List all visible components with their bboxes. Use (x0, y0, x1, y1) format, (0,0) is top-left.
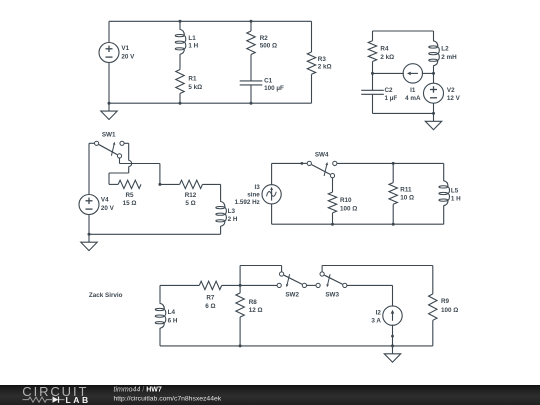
label C2 1 µF (385, 87, 398, 102)
svg-text:C1: C1 (264, 77, 273, 84)
label L3 2 H (228, 208, 238, 223)
label R3 2 kΩ (318, 56, 332, 71)
svg-text:2 H: 2 H (228, 216, 238, 223)
voltage source V1 (99, 43, 119, 63)
wire bottom rail of circuit 2 (373, 112, 434, 114)
svg-text:2 mH: 2 mH (441, 54, 457, 61)
label R11 10 Ω (400, 187, 414, 202)
resistor R5 (118, 180, 141, 188)
resistor R10 (328, 178, 336, 225)
wire SW2 right throw to SW3 left throw (307, 284, 317, 286)
svg-text:L2: L2 (441, 45, 449, 52)
svg-text:100 Ω: 100 Ω (441, 307, 458, 314)
svg-text:C2: C2 (385, 87, 394, 94)
svg-text:R9: R9 (441, 298, 450, 305)
svg-text:500 Ω: 500 Ω (260, 43, 277, 50)
svg-text:10 Ω: 10 Ω (400, 195, 414, 202)
svg-text:V1: V1 (121, 45, 129, 52)
resistor R3 (307, 52, 315, 74)
label I1 4 mA (405, 87, 421, 102)
svg-text:SW3: SW3 (325, 291, 339, 298)
wire C2 top lead (372, 73, 374, 90)
svg-text:4 mA: 4 mA (405, 95, 421, 102)
svg-text:L3: L3 (228, 208, 236, 215)
wire left rail (V1 branch) (108, 21, 110, 103)
ground circuit 5 (384, 346, 400, 362)
svg-text:R11: R11 (400, 187, 412, 194)
wire middle right segment (422, 72, 434, 74)
label SW2 (285, 291, 299, 298)
svg-text:R12: R12 (185, 192, 197, 199)
node junction at V2 ground (432, 112, 435, 115)
voltage source V2 (424, 73, 444, 113)
node junction at V1 ground (108, 102, 111, 105)
current source I3 (sine) (262, 163, 281, 224)
svg-text:SW4: SW4 (315, 152, 329, 159)
current source I2 (383, 306, 402, 325)
wire L4 top lead (159, 285, 161, 302)
svg-text:100 µF: 100 µF (264, 85, 284, 92)
node junction top of L1 (179, 20, 182, 23)
svg-text:I1: I1 (410, 87, 416, 94)
svg-text:R2: R2 (260, 35, 269, 42)
current source I1 (403, 64, 422, 83)
wire SW4 right terminal to L5 (337, 162, 444, 164)
wire R2 to C1 (250, 55, 252, 81)
svg-text:100 Ω: 100 Ω (340, 205, 357, 212)
resistor R1 (176, 70, 184, 104)
label R10 100 Ω (340, 197, 357, 212)
label C1 100 µF (264, 77, 284, 92)
wire node A up and over to SW2 pole (240, 266, 282, 286)
svg-text:I3: I3 (255, 184, 261, 191)
svg-text:20 V: 20 V (121, 53, 135, 60)
label V1 20 V (121, 45, 135, 60)
node junction bottom of R1 (179, 102, 182, 105)
wire middle left segment (373, 72, 404, 74)
label L4 6 H (168, 309, 178, 325)
wire I2 to bottom rail (391, 325, 394, 346)
svg-text:I2: I2 (376, 309, 382, 316)
svg-text:V4: V4 (101, 197, 109, 204)
svg-text:6 Ω: 6 Ω (205, 303, 215, 310)
label R7 6 Ω (205, 294, 215, 310)
node junction A (R7/R8/SW2 branches) (239, 284, 242, 287)
wire C1 to bottom rail (250, 85, 252, 103)
svg-text:R8: R8 (249, 299, 258, 306)
node junction R4/C2/middle wire (371, 72, 374, 75)
label SW4 (315, 152, 329, 159)
svg-text:R4: R4 (380, 45, 389, 52)
svg-text:http://circuitlab.com/c7n8hsxe: http://circuitlab.com/c7n8hsxez44ek (114, 396, 222, 403)
resistor R4 (368, 31, 376, 73)
capacitor C1 (240, 81, 263, 85)
wire top rail of circuit 1 (109, 20, 312, 22)
label V4 20 V (101, 197, 115, 212)
node junction L2/V2/middle wire (432, 72, 435, 75)
label L2 2 mH (441, 45, 457, 61)
resistor R8 (236, 285, 244, 346)
wire bottom rail of circuit 1 (109, 102, 312, 104)
voltage source V4 (79, 195, 99, 215)
wire right rail (R3 branch) (311, 21, 313, 103)
ground circuit 3 (81, 234, 97, 250)
resistor R9 (429, 266, 437, 346)
svg-text:SW1: SW1 (102, 132, 116, 139)
svg-text:2 kΩ: 2 kΩ (380, 54, 394, 61)
svg-text:5 kΩ: 5 kΩ (188, 84, 202, 91)
label R12 5 Ω (185, 192, 197, 207)
svg-text:2 kΩ: 2 kΩ (318, 63, 332, 70)
switch SW1 (95, 141, 125, 158)
svg-text:R7: R7 (206, 294, 215, 301)
wire junction to R12 (160, 183, 180, 185)
svg-text:1 µF: 1 µF (385, 95, 398, 102)
node junction top of R2 (250, 20, 253, 23)
node junction R5/R12 (158, 183, 161, 186)
wire V4 to bottom rail (88, 215, 90, 235)
node junction bottom of L4... none; junction bottom of R8 (239, 344, 242, 347)
label R1 5 kΩ (188, 75, 202, 91)
wire top rail of circuit 2 (373, 30, 434, 32)
ground circuit 1 (101, 103, 117, 119)
label Zack Sirvio (89, 292, 123, 299)
svg-text:3 A: 3 A (371, 317, 381, 324)
label I3 sine 1.592 Hz (235, 184, 261, 206)
node junction bottom of C1 (250, 102, 253, 105)
svg-text:1.592 Hz: 1.592 Hz (235, 199, 260, 206)
inductor L1 (175, 21, 186, 69)
node junction bottom of R10 (331, 223, 334, 226)
wire L4 to R7 (160, 284, 199, 286)
svg-text:sine: sine (247, 191, 260, 198)
svg-text:12 Ω: 12 Ω (249, 307, 263, 314)
label L5 1 H (451, 187, 461, 202)
wire I3 to SW4 (272, 162, 308, 165)
node junction bottom of R11 (392, 223, 395, 226)
svg-text:L4: L4 (168, 309, 176, 316)
inductor L4 (155, 302, 166, 346)
switch SW3 (316, 272, 347, 288)
svg-text:R3: R3 (318, 56, 327, 63)
switch SW2 (277, 272, 306, 288)
label SW1 (102, 132, 116, 139)
label R5 15 Ω (123, 192, 137, 207)
svg-text:L1: L1 (188, 35, 196, 42)
label V2 12 V (447, 87, 461, 102)
wire bottom rail circuit 4 (272, 223, 444, 225)
switch SW4 (307, 161, 337, 177)
node junction top of R11 (392, 162, 395, 165)
wire bottom rail circuit 3 (89, 233, 221, 235)
svg-text:R1: R1 (188, 75, 197, 82)
wire V4 to SW1 left terminal (89, 143, 95, 194)
svg-text:timmo44 / HW7: timmo44 / HW7 (114, 386, 162, 393)
inductor L5 (439, 163, 450, 224)
label SW3 (325, 291, 339, 298)
svg-text:LAB: LAB (66, 395, 91, 405)
inductor L3 (216, 200, 227, 234)
label I2 3 A (371, 309, 381, 324)
wire SW3 right throw to I2 (347, 285, 393, 306)
wire SW1 lower terminal to R5/R12 junction (120, 158, 160, 184)
wire C2 to bottom rail (372, 94, 374, 113)
svg-text:R5: R5 (125, 192, 134, 199)
svg-text:6 H: 6 H (168, 318, 178, 325)
wire node A to SW2 left throw (240, 284, 277, 286)
wire bottom rail circuit 5 (160, 345, 433, 347)
wire SW3 pole up and over to R9 (322, 266, 433, 272)
resistor R7 (199, 281, 221, 289)
svg-text:1 H: 1 H (451, 195, 461, 202)
resistor R11 (389, 163, 397, 224)
svg-text:5 Ω: 5 Ω (185, 200, 195, 207)
label R4 2 kΩ (380, 45, 394, 61)
resistor R12 (180, 180, 203, 188)
svg-text:Zack Sirvio: Zack Sirvio (89, 292, 123, 299)
wire SW1 right terminal down to R5 left (with hop) (109, 143, 132, 184)
label R2 500 Ω (260, 35, 277, 50)
svg-text:L5: L5 (451, 187, 459, 194)
svg-text:SW2: SW2 (285, 291, 299, 298)
svg-text:20 V: 20 V (101, 205, 115, 212)
capacitor C2 (361, 90, 384, 94)
label R9 100 Ω (441, 298, 458, 314)
svg-text:15 Ω: 15 Ω (123, 200, 137, 207)
svg-text:1 H: 1 H (188, 42, 198, 49)
label L1 1 H (188, 35, 198, 50)
logo resistor-diode squiggle (23, 397, 65, 402)
wire R12 to L3 (203, 184, 221, 200)
inductor L2 (429, 31, 440, 73)
svg-text:V2: V2 (447, 87, 455, 94)
ground circuit 2 (425, 113, 441, 129)
svg-text:12 V: 12 V (447, 95, 461, 102)
svg-text:R10: R10 (340, 197, 352, 204)
resistor R2 (247, 21, 255, 54)
wire R7 to node A (222, 284, 240, 286)
node junction at V4 ground (88, 233, 91, 236)
label R8 12 Ω (249, 299, 263, 314)
node junction at I2 ground (391, 344, 394, 347)
